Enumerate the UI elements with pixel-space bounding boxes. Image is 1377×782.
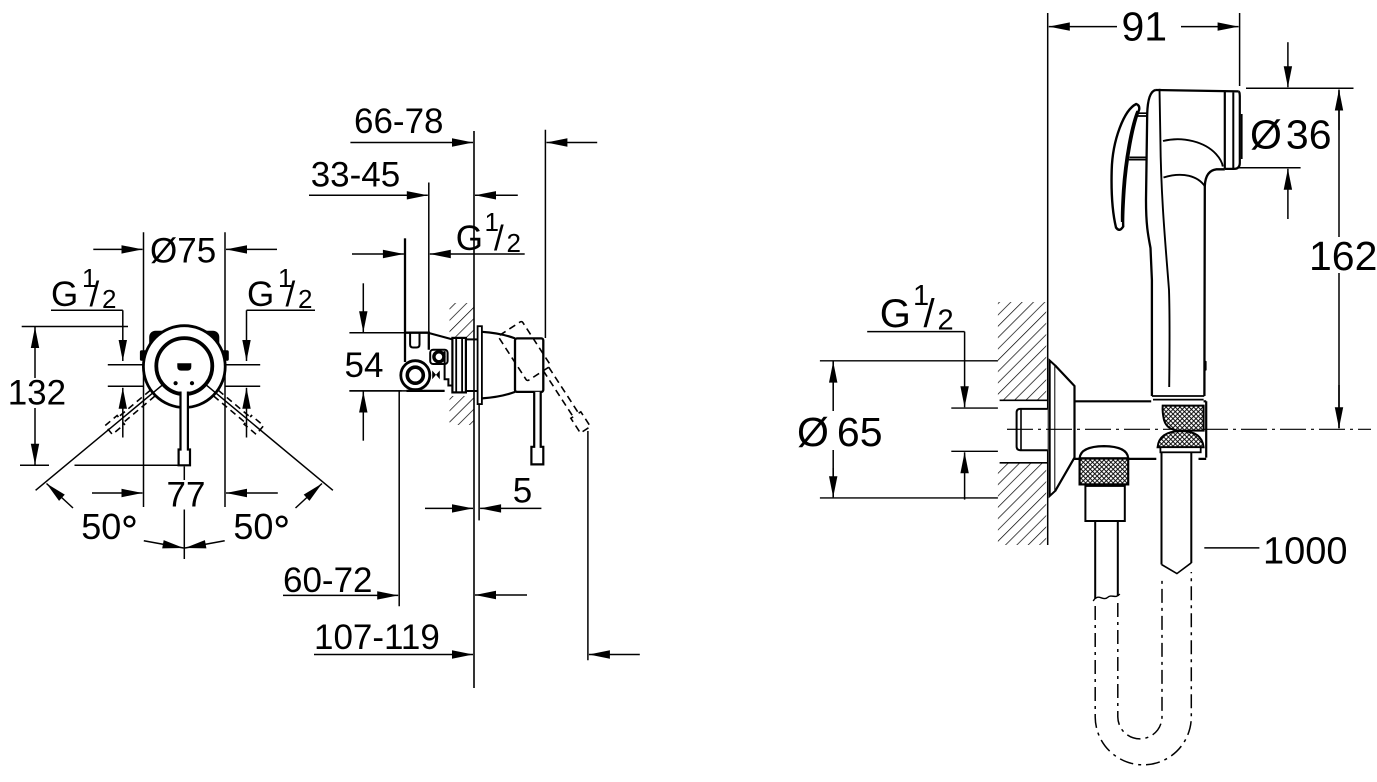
svg-text:2: 2 [298,284,312,314]
control paddle [1112,104,1140,230]
plate front reference below [478,404,480,520]
extension line handle front [544,130,546,338]
dim 60-72 opposite arrow [475,594,527,596]
dashed handle position left [105,389,156,435]
face rim tick [1241,114,1243,159]
supply hose break cut [1093,594,1120,601]
G1/2 up arrow [964,452,966,499]
lever handle (front) [179,392,190,466]
supply port line upper [951,407,998,409]
svg-text:50: 50 [81,506,121,547]
hose loop outer dash-dot [1095,572,1191,765]
head right edge / face band line [1224,91,1226,169]
wall cut boundary lower [1000,462,1048,464]
G1/2 leader + down arrow [964,332,966,408]
extension line head axis [1239,13,1241,86]
temperature indicator bar [177,363,191,370]
50deg thin line right [206,385,333,491]
dim 60-72 leader arrow [283,594,398,596]
dim 132 top reference line [22,326,128,328]
handle centerline [183,467,185,560]
extension line port rear [398,392,400,607]
port reference lines [108,365,260,387]
wall face / extension line [1047,13,1049,545]
housing outline [405,238,445,391]
diam36/162 top ref extension [1246,87,1354,89]
svg-text:77: 77 [167,476,206,515]
spray face plate outer [1225,91,1240,168]
wall cut boundary upper [1000,399,1048,401]
extension line right of Ø75/77 [224,232,226,507]
wall hatch below body [450,396,475,425]
dim 33-45 opposite arrow [475,194,518,196]
grip bottom cap [1152,396,1204,400]
svg-text:66-78: 66-78 [354,102,444,141]
dim 107-119 leader arrow [314,654,473,656]
dim 162 line [1338,91,1340,428]
extension line housing left [404,238,406,332]
dome top profile [482,332,515,339]
dim 54 down arrow [362,283,364,332]
supply nut dome [1080,446,1129,458]
svg-text:50: 50 [233,506,273,547]
cartridge rear vertical [445,351,453,385]
svg-text:91: 91 [1122,4,1168,50]
dim 54 up arrow [362,392,364,441]
dim 5 right arrow [480,507,541,509]
neck shoulder right [1204,169,1224,396]
svg-text:132: 132 [8,374,66,413]
mounting tab left [140,350,146,361]
supply port line bottom (Ø65 bottom ref) [820,497,998,499]
up arrow right below port lines [246,388,248,438]
G1/2 left down arrow [122,310,124,361]
svg-text:60-72: 60-72 [283,561,373,600]
sleeve inner lines [456,338,462,393]
grip inlet notch [1204,360,1206,371]
sleeve to plate bottom line [466,390,478,392]
dim 5 left arrow [425,507,473,509]
svg-text:2: 2 [102,284,116,314]
dim 91 left arrow [1049,26,1117,28]
service stop circle [434,352,444,362]
svg-text:/: / [924,292,936,336]
holder barrel [1075,401,1207,459]
dim 107-119 opposite arrow [589,654,640,656]
diam36 up arrow [1287,169,1289,219]
dashed handle raised position [498,321,590,442]
dim 132 bottom reference line [20,464,178,466]
supply nut knurled block [1080,459,1129,485]
flange cone [1055,366,1074,491]
G1/2 left leader underline [51,309,123,311]
shower hose conical nut [1163,406,1204,431]
diam36 bottom ref extension [1239,167,1301,169]
dim 33-45 leader arrow [309,194,428,196]
escutcheon plate side [478,326,482,404]
supply hose ferrule [1085,486,1124,521]
dim Ø75 arrow left [93,248,142,250]
dim 77 arrows [92,492,143,494]
svg-text:5: 5 [513,472,532,511]
svg-text:107-119: 107-119 [314,618,440,657]
face band inner line [1232,93,1234,169]
escutcheon outer circle [143,326,225,408]
holder centerline dash-dot [1007,428,1371,430]
hose collar dome [1158,431,1204,447]
head top edge [1156,90,1239,91]
extension line handle tip [587,431,589,660]
svg-text:/: / [90,275,100,314]
Ø65 up arrow [832,362,834,390]
G1/2 middle underline arrow [430,253,525,255]
supply hose [1095,521,1118,599]
angle arrow left end [47,484,74,509]
162 up arrow [1338,90,1340,131]
hose collar band [1160,447,1200,452]
port inner line [1020,409,1022,450]
head/grip left silhouette [1146,90,1156,396]
hose loop inner dash-dot [1118,578,1162,739]
lever handle side [531,392,543,465]
svg-text:G: G [247,275,274,314]
indicator dot left [174,381,178,385]
extension line left of Ø75/77 [143,232,145,507]
lower neck seam [1164,175,1206,187]
G1/2 underline [867,331,964,333]
G1/2 middle opposite arrow [352,253,404,255]
dim 91 right arrow [1181,26,1239,28]
svg-text:162: 162 [1309,233,1377,279]
diam36 down arrow [1287,42,1289,87]
housing top slot [410,333,419,348]
dim Ø75 arrow right [226,248,277,250]
concealed body square [151,332,219,389]
dim 54 top reference [349,332,405,334]
supply port line top (Ø65 top ref) [820,360,998,362]
housing bottom line [349,390,444,392]
inlet port outer circle [401,361,430,390]
dim 66-78 opposite arrow [546,142,597,144]
162 down arrow [1338,385,1340,428]
angle arrow right end [296,484,323,509]
wall port nipple [1017,409,1048,450]
svg-text:Ø65: Ø65 [797,409,883,455]
svg-text:54: 54 [345,346,384,385]
wall flange plate [1050,361,1056,497]
svg-text:G: G [51,275,78,314]
label 1000 leader [1204,547,1259,549]
wall hatch band lower [998,463,1046,545]
wall hatch band upper [998,302,1046,400]
head inner seam [1160,89,1170,387]
upper neck seam [1163,139,1223,166]
top connector to sleeve [429,333,453,339]
wall hatch above body [450,303,475,338]
svg-text:1000: 1000 [1263,531,1348,573]
dome bottom profile [482,392,515,399]
dim Ø65 line [832,361,834,497]
svg-text:33-45: 33-45 [311,156,401,195]
svg-text:/: / [286,275,296,314]
indicator dot right [190,381,194,385]
mounting tab right [223,350,229,361]
dim 66-78 leader arrow [350,142,473,144]
hot marking bowtie [432,371,440,380]
shower hose end cut [1162,563,1192,574]
sleeve outer [452,338,466,393]
svg-text:G: G [880,292,911,336]
finished wall line [473,131,475,688]
G1/2 right down arrow [246,310,248,361]
inlet port inner circle [407,367,423,383]
dashed handle position right [212,389,263,435]
sleeve to plate top line [466,338,478,340]
handle rosette inner circle [156,338,212,394]
G1/2 right leader underline [247,309,316,311]
angle arrows at centerline [144,541,184,548]
dim 54 bottom reference [349,390,401,392]
svg-text:/: / [494,219,504,258]
up arrow left below port lines [122,388,124,438]
extension line body rear [428,183,430,333]
svg-text:Ø36: Ø36 [1250,111,1332,157]
shower hose [1162,452,1192,564]
paddle hinge bars [1129,113,1147,159]
svg-text:Ø75: Ø75 [150,232,216,271]
Ø65 down arrow [832,468,834,497]
dim 132 line with arrows [34,327,36,378]
handle hub side [515,338,543,392]
supply port line lower [951,450,998,452]
50deg thin line left [36,385,163,491]
service stop box [430,350,447,364]
svg-text:G: G [456,219,483,258]
